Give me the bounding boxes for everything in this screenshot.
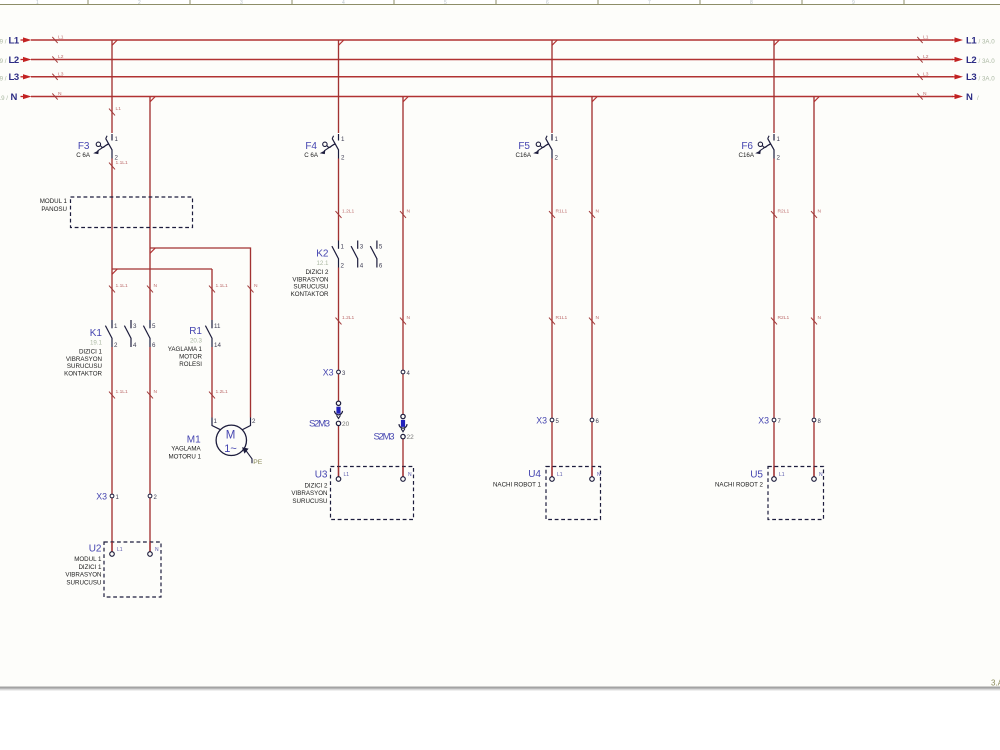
- svg-text:VIBRASYON: VIBRASYON: [65, 572, 101, 579]
- svg-text:NACHI ROBOT 2: NACHI ROBOT 2: [715, 481, 764, 488]
- svg-text:L1: L1: [116, 106, 122, 112]
- svg-text:/ 3A.0: / 3A.0: [979, 75, 996, 82]
- svg-text:L1: L1: [779, 472, 785, 478]
- svg-text:C 6A: C 6A: [76, 152, 91, 159]
- svg-text:N: N: [597, 472, 601, 478]
- svg-text:N: N: [155, 547, 159, 553]
- svg-text:1: 1: [214, 418, 218, 425]
- svg-text:2: 2: [252, 418, 256, 425]
- svg-text:14: 14: [214, 342, 221, 349]
- svg-text:3: 3: [240, 0, 243, 6]
- svg-text:3: 3: [133, 323, 137, 330]
- svg-text:6: 6: [546, 0, 549, 6]
- svg-text:L3: L3: [58, 71, 64, 77]
- svg-text:R2L1: R2L1: [778, 209, 790, 215]
- svg-text:YAGLAMA: YAGLAMA: [171, 446, 201, 453]
- svg-text:22: 22: [407, 434, 415, 441]
- svg-text:N: N: [11, 92, 18, 103]
- svg-text:KONTAKTOR: KONTAKTOR: [64, 371, 102, 378]
- svg-text:SURUCUSU: SURUCUSU: [66, 579, 101, 586]
- svg-text:MODUL 1: MODUL 1: [40, 198, 68, 205]
- svg-text:S2M3: S2M3: [309, 419, 330, 430]
- svg-text:U5: U5: [750, 470, 763, 481]
- svg-text:9 /: 9 /: [0, 75, 7, 82]
- svg-text:M: M: [226, 429, 236, 441]
- svg-text:X3: X3: [323, 368, 334, 378]
- svg-text:L2: L2: [58, 54, 64, 60]
- svg-text:PE: PE: [253, 459, 263, 466]
- svg-text:2: 2: [114, 342, 118, 349]
- svg-text:C16A: C16A: [516, 152, 532, 159]
- svg-text:F6: F6: [741, 141, 753, 152]
- svg-text:L1: L1: [117, 547, 123, 553]
- svg-text:DIZICI 1: DIZICI 1: [79, 348, 103, 355]
- svg-text:9 /: 9 /: [0, 39, 7, 46]
- svg-text:1.2L1: 1.2L1: [342, 209, 355, 215]
- svg-text:X3: X3: [96, 492, 107, 502]
- svg-text:20.3: 20.3: [190, 338, 203, 345]
- svg-text:K1: K1: [90, 328, 103, 339]
- svg-text:YAGLAMA 1: YAGLAMA 1: [168, 346, 203, 353]
- svg-text:N: N: [58, 91, 62, 97]
- svg-text:U4: U4: [528, 469, 541, 480]
- svg-text:N: N: [407, 209, 411, 215]
- svg-text:F3: F3: [78, 141, 90, 152]
- svg-text:MOTORU 1: MOTORU 1: [168, 453, 201, 460]
- svg-text:1~: 1~: [224, 443, 237, 455]
- svg-text:MOTOR: MOTOR: [179, 354, 202, 361]
- svg-text:VIBRASYON: VIBRASYON: [291, 490, 327, 497]
- svg-text:L1: L1: [557, 472, 563, 478]
- svg-text:N: N: [154, 283, 158, 289]
- svg-text:2: 2: [341, 263, 345, 270]
- svg-text:9: 9: [852, 0, 855, 6]
- svg-text:VIBRASYON: VIBRASYON: [292, 276, 328, 283]
- svg-text:L3: L3: [923, 71, 929, 77]
- svg-text:L2: L2: [9, 55, 19, 66]
- svg-text:R2L1: R2L1: [778, 315, 790, 321]
- svg-text:1: 1: [341, 136, 345, 143]
- svg-text:L1: L1: [58, 35, 64, 41]
- svg-text:KONTAKTOR: KONTAKTOR: [291, 291, 329, 298]
- svg-text:R1: R1: [189, 326, 202, 337]
- svg-text:C16A: C16A: [739, 152, 755, 159]
- svg-text:2: 2: [341, 155, 345, 162]
- svg-text:NACHI ROBOT 1: NACHI ROBOT 1: [493, 481, 542, 488]
- svg-text:8: 8: [750, 0, 753, 6]
- svg-text:1.1L1: 1.1L1: [116, 389, 129, 395]
- svg-text:1.9 /: 1.9 /: [0, 95, 8, 102]
- svg-text:N: N: [818, 315, 822, 321]
- svg-text:M1: M1: [187, 435, 201, 446]
- svg-text:X3: X3: [536, 416, 547, 426]
- svg-text:L1: L1: [923, 35, 929, 41]
- svg-text:6: 6: [379, 263, 383, 270]
- svg-text:C 6A: C 6A: [304, 152, 319, 159]
- svg-text:4: 4: [360, 263, 364, 270]
- svg-text:S2M3: S2M3: [374, 432, 395, 443]
- svg-text:20: 20: [342, 421, 350, 428]
- svg-text:5: 5: [444, 0, 447, 6]
- svg-text:6: 6: [152, 342, 156, 349]
- svg-text:4: 4: [133, 342, 137, 349]
- svg-text:N: N: [408, 472, 412, 478]
- svg-text:N: N: [596, 209, 600, 215]
- svg-text:2: 2: [115, 155, 119, 162]
- svg-text:DIZICI 2: DIZICI 2: [304, 482, 328, 489]
- svg-text:SURUCUSU: SURUCUSU: [67, 363, 102, 370]
- svg-text:/ 3A.0: / 3A.0: [979, 39, 996, 46]
- svg-text:DIZICI 2: DIZICI 2: [305, 269, 329, 276]
- svg-text:2: 2: [555, 155, 559, 162]
- svg-text:12.1: 12.1: [316, 260, 329, 267]
- svg-text:5: 5: [379, 244, 383, 251]
- svg-text:9 /: 9 /: [0, 58, 7, 65]
- svg-text:L1: L1: [344, 472, 350, 478]
- svg-text:1.2L1: 1.2L1: [342, 315, 355, 321]
- svg-text:11: 11: [214, 323, 221, 330]
- svg-text:X3: X3: [758, 416, 769, 426]
- svg-text:SURUCUSU: SURUCUSU: [293, 284, 328, 291]
- svg-text:L3: L3: [9, 72, 19, 83]
- svg-text:PANOSU: PANOSU: [41, 206, 67, 213]
- svg-text:3.A: 3.A: [991, 679, 1000, 688]
- svg-text:4: 4: [342, 0, 345, 6]
- svg-text:N: N: [819, 472, 823, 478]
- svg-text:L3: L3: [966, 72, 976, 83]
- svg-text:N: N: [923, 91, 927, 97]
- svg-text:1: 1: [555, 136, 559, 143]
- svg-text:1: 1: [114, 323, 118, 330]
- svg-text:K2: K2: [316, 249, 329, 260]
- svg-text:F4: F4: [305, 141, 317, 152]
- svg-text:/ 3A.0: / 3A.0: [979, 58, 996, 65]
- svg-text:L2: L2: [966, 55, 976, 66]
- svg-text:5: 5: [152, 323, 156, 330]
- svg-text:2: 2: [777, 155, 781, 162]
- svg-text:7: 7: [648, 0, 651, 6]
- svg-text:L2: L2: [923, 54, 929, 60]
- svg-text:N: N: [596, 315, 600, 321]
- svg-text:3: 3: [360, 244, 364, 251]
- svg-text:N: N: [966, 92, 973, 103]
- svg-text:U2: U2: [89, 544, 102, 555]
- svg-text:MODUL 1: MODUL 1: [74, 556, 102, 563]
- svg-text:L1: L1: [966, 35, 977, 46]
- svg-text:/: /: [977, 95, 979, 102]
- svg-text:1: 1: [341, 244, 345, 251]
- svg-text:1.1L1: 1.1L1: [116, 283, 129, 289]
- svg-text:1.2L1: 1.2L1: [216, 389, 229, 395]
- svg-text:N: N: [254, 283, 258, 289]
- svg-text:N: N: [154, 389, 158, 395]
- svg-text:R1L1: R1L1: [556, 209, 568, 215]
- svg-text:DIZICI 1: DIZICI 1: [78, 564, 102, 571]
- svg-text:R1L1: R1L1: [556, 315, 568, 321]
- svg-text:ROLESI: ROLESI: [179, 361, 202, 368]
- svg-text:SURUCUSU: SURUCUSU: [292, 498, 327, 505]
- svg-text:1: 1: [115, 136, 119, 143]
- svg-text:1: 1: [777, 136, 781, 143]
- svg-text:VIBRASYON: VIBRASYON: [66, 356, 102, 363]
- svg-text:F5: F5: [518, 141, 530, 152]
- svg-text:L1: L1: [9, 35, 20, 46]
- svg-text:U3: U3: [315, 470, 328, 481]
- svg-text:N: N: [407, 315, 411, 321]
- svg-text:19.1: 19.1: [90, 340, 103, 347]
- svg-text:1: 1: [36, 0, 39, 6]
- svg-text:2: 2: [138, 0, 141, 6]
- svg-text:N: N: [818, 209, 822, 215]
- svg-text:1.1L1: 1.1L1: [216, 283, 229, 289]
